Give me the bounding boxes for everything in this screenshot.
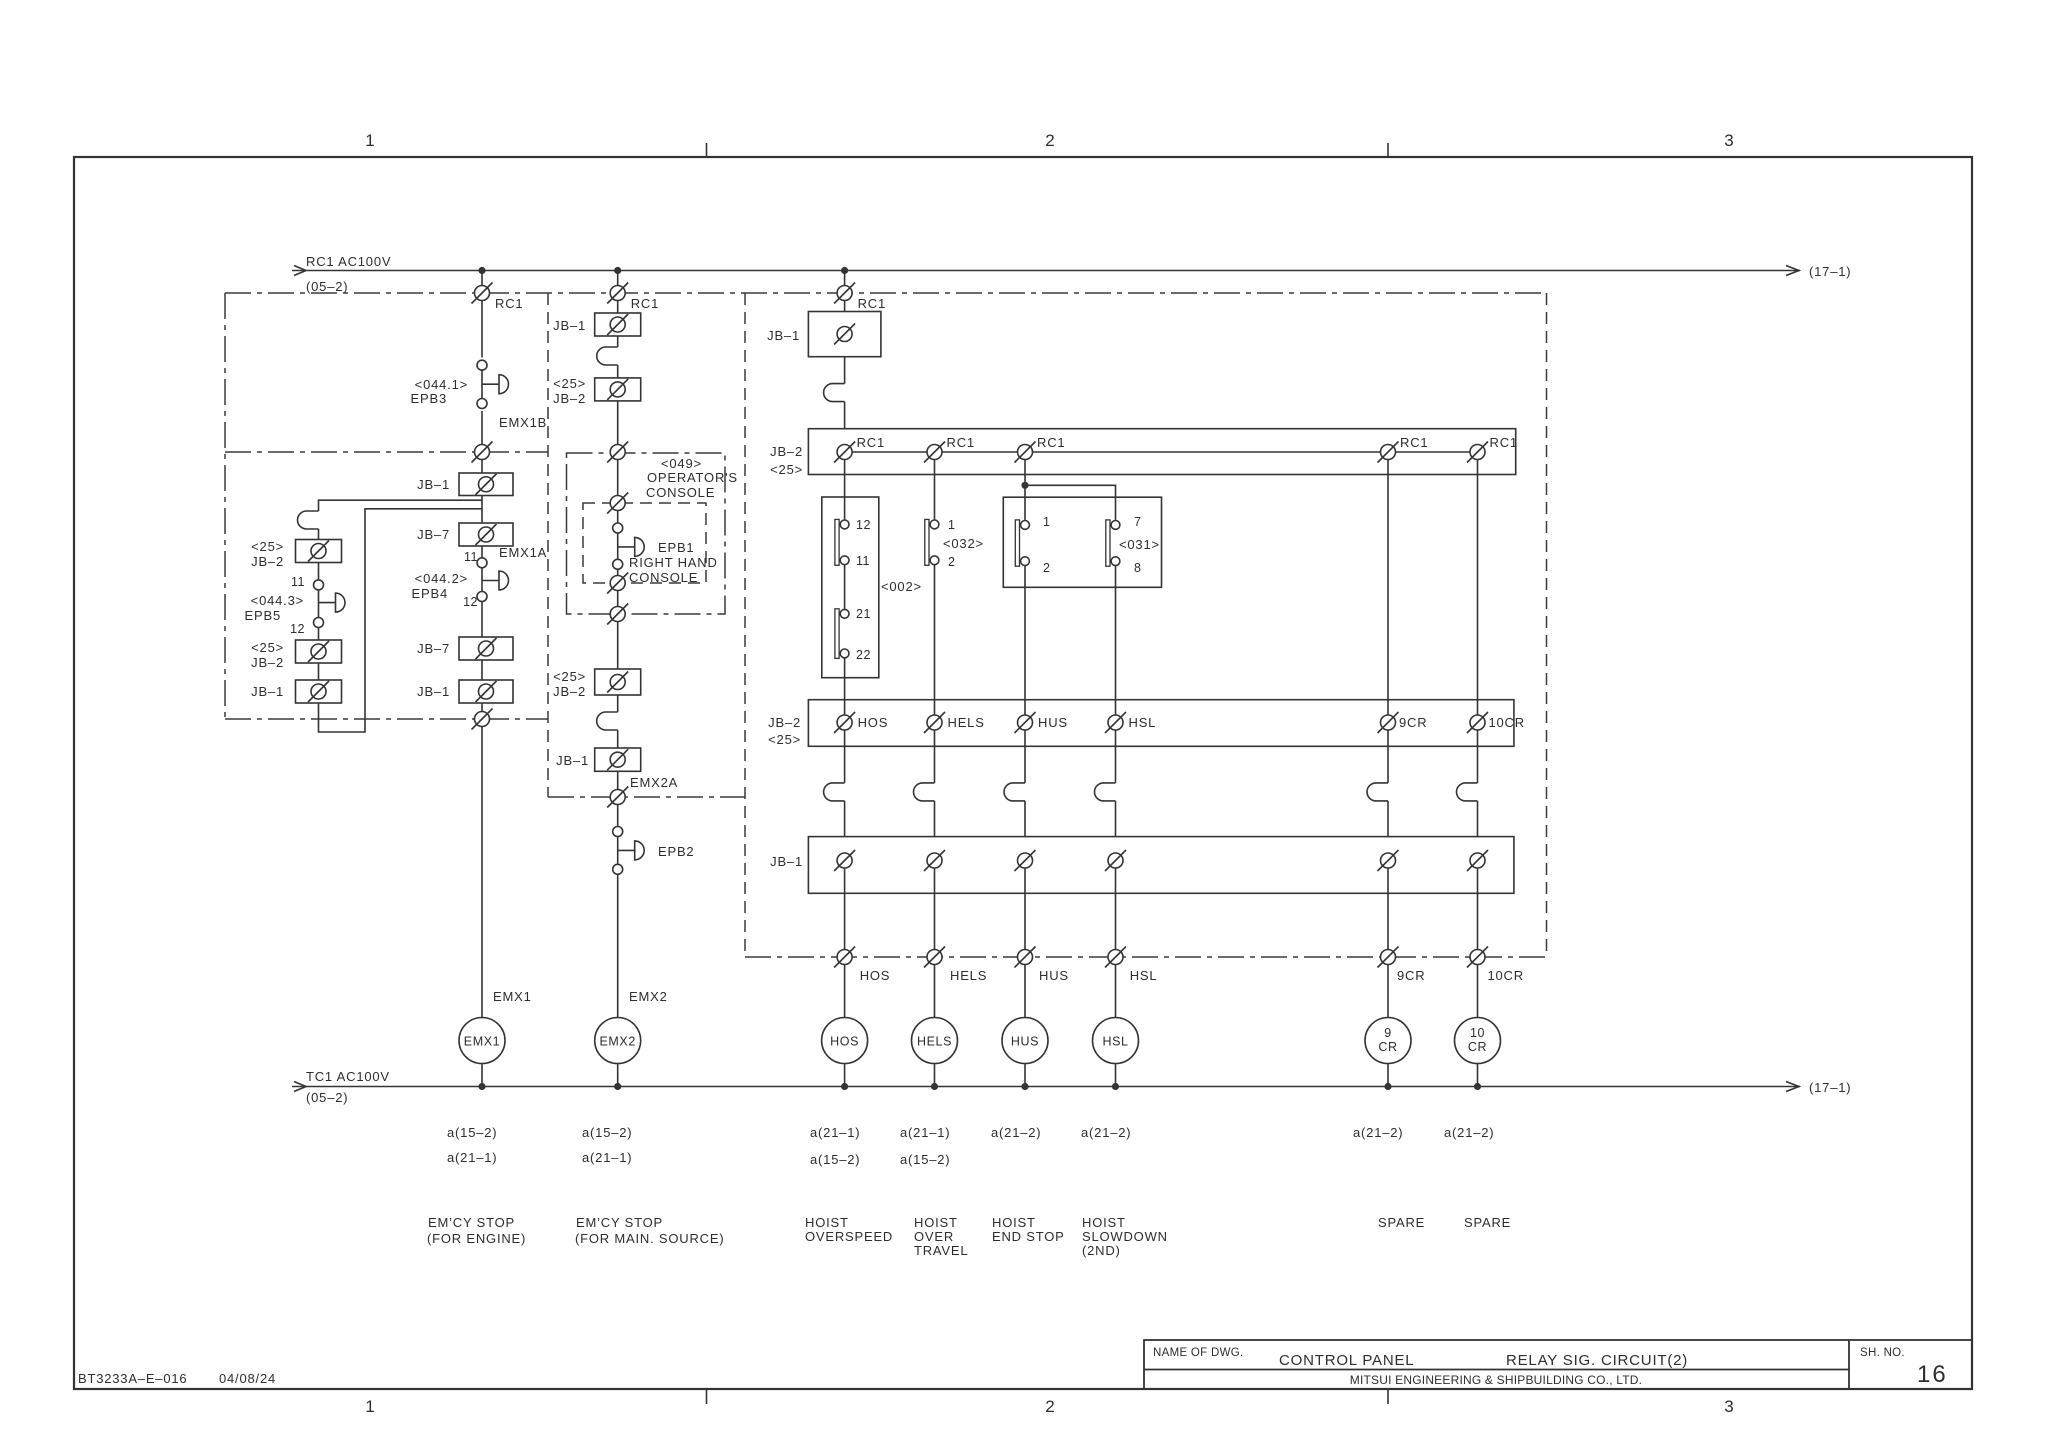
svg-text:HSL: HSL [1102,1035,1128,1049]
junction TC1 bus / EMX1 column [478,1083,485,1090]
terminal RC1 (HELS) in JB-2 row [924,442,945,463]
terminal HELS on panel boundary [924,947,945,968]
junction TC1 bus / HUS column [1021,1083,1028,1090]
svg-text:OVERSPEED: OVERSPEED [805,1229,893,1244]
svg-text:a(21–1): a(21–1) [447,1150,497,1165]
svg-text:EMX2: EMX2 [599,1035,635,1049]
svg-text:HOS: HOS [830,1035,859,1049]
svg-text:a(15–2): a(15–2) [582,1125,632,1140]
svg-text:RC1: RC1 [495,296,523,311]
right hand console inner box (dashed) [583,503,706,583]
bus RC1 AC100V top supply rail [292,266,1800,276]
junction box JB-1 terminal (EMX1) [459,473,513,496]
junction TC1 bus / 9CR column [1384,1083,1391,1090]
svg-text:a(15–2): a(15–2) [447,1125,497,1140]
wire EMX2 column segments [617,271,619,1087]
svg-text:10CR: 10CR [1489,715,1525,730]
svg-text:JB–2: JB–2 [553,391,586,406]
junction box JB-2 <25> terminal (EMX2 top) [595,378,641,401]
label drawing number and date [78,1371,276,1386]
svg-text:RC1: RC1 [857,435,885,450]
wire HELS column segments [934,460,936,1087]
operator console box <049> (dash-dot) [567,453,726,614]
panel boundary divider EMX1B/EMX1A (dash-dot) [225,451,548,453]
cable loop HOS [824,783,845,801]
terminal EMX2A on panel boundary [607,787,628,808]
bus TC1 AC100V bottom return rail [292,1082,1800,1092]
terminal HOS in JB-1 row [834,850,855,871]
terminal HUS in lower JB-2 row [1015,712,1036,733]
svg-text:EMX1: EMX1 [464,1035,500,1049]
svg-text:1: 1 [365,131,374,150]
svg-text:8: 8 [1134,561,1141,575]
svg-text:JB–2: JB–2 [770,444,803,459]
svg-text:EPB4: EPB4 [412,586,448,601]
terminal RC1 on HOS column [834,283,855,304]
svg-text:CR: CR [1468,1040,1487,1054]
junction box JB-1 terminal (EMX2 lower) [595,748,641,771]
svg-text:JB–1: JB–1 [251,684,284,699]
junction TC1 bus / 10CR column [1474,1083,1481,1090]
terminal HUS on panel boundary [1015,947,1036,968]
svg-text:HUS: HUS [1038,715,1068,730]
junction box JB-7 terminal (EMX1 upper) [459,523,513,546]
relay coil HSL [1093,1018,1139,1064]
label HOIST END STOP [992,1215,1065,1244]
relay coil HUS [1002,1018,1048,1064]
svg-text:EMX1: EMX1 [493,989,532,1004]
svg-text:EMX1B: EMX1B [499,415,547,430]
svg-text:a(21–1): a(21–1) [582,1150,632,1165]
svg-text:(17–1): (17–1) [1809,264,1851,279]
svg-text:a(21–2): a(21–2) [1444,1125,1494,1140]
svg-text:a(21–1): a(21–1) [810,1125,860,1140]
relay coil 10CR [1455,1018,1501,1064]
wire HOS column segments [844,271,846,1087]
svg-text:TRAVEL: TRAVEL [914,1243,968,1258]
cable loop HSL [1095,783,1116,801]
title block [1144,1340,1972,1389]
svg-text:JB–1: JB–1 [770,854,803,869]
terminal EMX2 on inner console box bottom [607,573,628,594]
svg-text:(FOR MAIN. SOURCE): (FOR MAIN. SOURCE) [575,1231,724,1246]
panel boundary left box EMX1 (dash-dot) [225,293,548,719]
svg-text:<25>: <25> [768,732,801,747]
contact bar <031> 7-8 [1106,520,1110,566]
junction box JB-2 <25> row (lower long box) [808,700,1514,747]
svg-text:HOIST: HOIST [992,1215,1036,1230]
svg-text:3: 3 [1724,1397,1733,1416]
pin 2 [930,556,939,565]
svg-text:2: 2 [1043,561,1050,575]
svg-text:EPB1: EPB1 [658,540,694,555]
junction TC1 bus / EMX2 column [614,1083,621,1090]
label HOIST OVER TRAVEL [914,1215,968,1258]
cable loop EPB5 branch [298,511,319,529]
svg-text:SPARE: SPARE [1378,1215,1425,1230]
svg-text:JB–1: JB–1 [553,318,586,333]
svg-text:<25>: <25> [251,539,284,554]
svg-text:END STOP: END STOP [992,1229,1065,1244]
label HOIST OVERSPEED [805,1215,893,1244]
svg-text:RC1: RC1 [1037,435,1065,450]
svg-text:(05–2): (05–2) [306,1090,348,1105]
label EM’CY STOP (FOR MAIN. SOURCE) [575,1215,724,1246]
limit switch box <002> hoist overspeed [822,497,879,678]
svg-text:JB–1: JB–1 [767,328,800,343]
svg-text:CONSOLE: CONSOLE [629,570,698,585]
relay coil EMX1 [459,1018,505,1064]
terminal 10CR on panel boundary [1467,947,1488,968]
svg-text:2: 2 [948,555,955,569]
push button EPB5 <044.3> [314,580,346,628]
svg-text:EM’CY STOP: EM’CY STOP [428,1215,515,1230]
terminal HELS in lower JB-2 row [924,712,945,733]
svg-text:(05–2): (05–2) [306,279,348,294]
svg-text:JB–2: JB–2 [768,715,801,730]
svg-text:a(21–2): a(21–2) [991,1125,1041,1140]
svg-text:<25>: <25> [553,669,586,684]
svg-text:11: 11 [464,550,478,564]
pin 21 [840,609,849,618]
wire EMX1 column segments [481,271,483,1087]
svg-text:HOIST: HOIST [1082,1215,1126,1230]
terminal EMX2 on inner console box top [607,493,628,514]
svg-text:12: 12 [290,622,305,636]
cable loop HELS [914,783,935,801]
svg-text:2: 2 [1045,1397,1054,1416]
svg-text:RC1 AC100V: RC1 AC100V [306,254,391,269]
svg-text:<032>: <032> [943,536,984,551]
svg-text:SLOWDOWN: SLOWDOWN [1082,1229,1168,1244]
svg-text:RC1: RC1 [947,435,975,450]
wire EPB5 parallel branch [319,500,483,732]
wire HUS column segments [1024,460,1026,1087]
junction RC1 bus / EMX1 column [478,267,485,274]
svg-text:EMX1A: EMX1A [499,545,547,560]
svg-text:OVER: OVER [914,1229,954,1244]
svg-text:(17–1): (17–1) [1809,1080,1851,1095]
svg-text:HELS: HELS [950,968,987,983]
pin 11 [840,556,849,565]
svg-text:HOIST: HOIST [805,1215,849,1230]
svg-text:RC1: RC1 [631,296,659,311]
terminal EMX1 on divider line [472,442,493,463]
svg-text:RC1: RC1 [858,296,886,311]
terminal 9CR in JB-1 row [1378,850,1399,871]
junction box JB-2 <25> terminal (EPB5 branch upper) [296,540,342,563]
svg-text:HELS: HELS [917,1035,952,1049]
junction RC1 bus / HOS column [841,267,848,274]
svg-text:CR: CR [1378,1040,1397,1054]
svg-text:RC1: RC1 [1400,435,1428,450]
svg-text:21: 21 [856,607,871,621]
svg-text:HELS: HELS [948,715,985,730]
svg-text:<25>: <25> [251,640,284,655]
svg-text:04/08/24: 04/08/24 [219,1371,276,1386]
cable loop 9CR [1367,783,1388,801]
junction box JB-2 <25> row (upper long box) [808,429,1515,475]
junction box JB-1 row (long box) [808,837,1514,894]
contact bar <002> 21-22 [835,609,839,659]
terminal EMX1 on panel boundary [472,709,493,730]
svg-text:JB–1: JB–1 [417,477,450,492]
svg-text:7: 7 [1134,515,1141,529]
svg-text:CONTROL PANEL: CONTROL PANEL [1279,1352,1414,1369]
cable loop EMX2 lower [597,712,618,730]
relay coil EMX2 [595,1018,641,1064]
junction box JB-2 <25> terminal (EPB5 branch lower) [296,640,342,663]
pin 8 [1111,557,1120,566]
value labels wire references [447,1125,1494,1167]
svg-text:TC1 AC100V: TC1 AC100V [306,1069,390,1084]
junction TC1 bus / HSL column [1112,1083,1119,1090]
panel boundary right box (dashed verticals, dash-dot bottom) [745,293,1547,957]
terminal HOS on panel boundary [834,947,855,968]
svg-text:HOS: HOS [858,715,889,730]
pin 7 [1111,521,1120,530]
svg-text:1: 1 [948,518,955,532]
junction TC1 bus / HELS column [931,1083,938,1090]
svg-text:HOIST: HOIST [914,1215,958,1230]
terminal EMX2 on console box edge [607,442,628,463]
wire 9CR column segments [1387,460,1389,1087]
svg-text:22: 22 [856,648,871,662]
svg-text:MITSUI ENGINEERING & SHIPBUILD: MITSUI ENGINEERING & SHIPBUILDING CO., L… [1350,1373,1642,1387]
svg-text:HSL: HSL [1130,968,1158,983]
svg-text:3: 3 [1724,131,1733,150]
svg-text:JB–1: JB–1 [556,753,589,768]
terminal HELS in JB-1 row [924,850,945,871]
svg-text:(2ND): (2ND) [1082,1243,1121,1258]
terminal 9CR on panel boundary [1378,947,1399,968]
terminal RC1 (HUS) in JB-2 row [1015,442,1036,463]
svg-text:1: 1 [1043,515,1050,529]
terminal RC1 (9CR) in JB-2 row [1378,442,1399,463]
svg-text:a(15–2): a(15–2) [810,1152,860,1167]
cable loop EMX2 upper [597,347,618,365]
junction HUS/HSL feed [1021,482,1028,489]
svg-text:16: 16 [1917,1361,1948,1388]
junction RC1 bus / EMX2 column [614,267,621,274]
svg-text:JB–1: JB–1 [417,684,450,699]
terminal HSL on panel boundary [1105,947,1126,968]
svg-text:11: 11 [856,554,870,568]
svg-text:JB–7: JB–7 [417,641,450,656]
svg-text:<044.1>: <044.1> [415,377,468,392]
svg-text:10CR: 10CR [1488,968,1524,983]
relay coil HOS [822,1018,868,1064]
svg-text:RC1: RC1 [1490,435,1518,450]
svg-text:9CR: 9CR [1397,968,1425,983]
panel boundary top edge (dash-dot) [225,292,1547,294]
svg-text:JB–2: JB–2 [251,554,284,569]
cable loop HOS [824,384,845,402]
junction box JB-7 terminal (EMX1 lower) [459,637,513,660]
junction box JB-1 (HOS, large box) [808,312,881,357]
svg-text:HSL: HSL [1129,715,1157,730]
terminal 9CR in lower JB-2 row [1378,712,1399,733]
svg-text:HUS: HUS [1011,1035,1039,1049]
terminal RC1 (10CR) in JB-2 row [1467,442,1488,463]
relay coil HELS [912,1018,958,1064]
svg-text:EPB5: EPB5 [245,608,281,623]
pin 1 [930,520,939,529]
terminal 10CR in lower JB-2 row [1467,712,1488,733]
push button EPB1 [613,523,645,569]
label EM’CY STOP (FOR ENGINE) [427,1215,526,1246]
svg-text:12: 12 [463,595,478,609]
contact bar <032> [925,519,929,565]
terminal HSL in lower JB-2 row [1105,712,1126,733]
junction box JB-1 terminal (EMX2 top) [595,313,641,336]
svg-text:<25>: <25> [770,462,803,477]
svg-text:HUS: HUS [1039,968,1069,983]
svg-text:NAME OF DWG.: NAME OF DWG. [1153,1347,1243,1359]
push button EPB4 <044.2> [477,558,509,602]
label HOIST SLOWDOWN (2ND) [1082,1215,1168,1258]
terminal EMX2 on console box bottom [607,604,628,625]
wire HSL column segments [1115,566,1117,1087]
svg-text:HOS: HOS [860,968,891,983]
terminal RC1 (HOS) in JB-2 row [834,442,855,463]
junction box JB-2 <25> terminal (EMX2 lower) [595,669,641,695]
terminal HUS in JB-1 row [1015,850,1036,871]
svg-text:12: 12 [856,518,871,532]
svg-text:a(21–2): a(21–2) [1353,1125,1403,1140]
junction box JB-1 terminal (EMX1 lower) [459,680,513,703]
pin 12 [840,520,849,529]
svg-text:9CR: 9CR [1399,715,1427,730]
junction box JB-1 terminal (EPB5 branch) [296,680,342,703]
terminal 10CR in JB-1 row [1467,850,1488,871]
pin 22 [840,649,849,658]
svg-text:SPARE: SPARE [1464,1215,1511,1230]
svg-text:<049>: <049> [661,456,702,471]
cable loop 10CR [1457,783,1478,801]
svg-text:<044.2>: <044.2> [415,571,468,586]
svg-text:a(21–1): a(21–1) [900,1125,950,1140]
terminal RC1 on EMX2 column [607,283,628,304]
svg-text:<25>: <25> [553,376,586,391]
svg-text:OPERATOR'S: OPERATOR'S [647,470,738,485]
push button EPB3 <044.1> [477,360,509,408]
limit switch box <031> hoist end stop / slowdown [1003,497,1161,587]
svg-text:<002>: <002> [881,579,922,594]
svg-text:1: 1 [365,1397,374,1416]
svg-text:EM’CY STOP: EM’CY STOP [576,1215,663,1230]
svg-text:SH. NO.: SH. NO. [1860,1347,1905,1359]
push button EPB2 [613,827,645,875]
svg-text:2: 2 [1045,131,1054,150]
svg-text:CONSOLE: CONSOLE [646,485,715,500]
svg-text:JB–2: JB–2 [251,655,284,670]
terminal HSL in JB-1 row [1105,850,1126,871]
svg-text:a(15–2): a(15–2) [900,1152,950,1167]
contact bar <031> 1-2 [1015,520,1019,566]
svg-text:EPB3: EPB3 [411,391,447,406]
terminal HOS in lower JB-2 row [834,712,855,733]
svg-text:RIGHT HAND: RIGHT HAND [629,555,718,570]
svg-text:EMX2: EMX2 [629,989,668,1004]
relay coil 9CR [1365,1018,1411,1064]
pin 2 [1021,557,1030,566]
svg-text:<044.3>: <044.3> [251,593,304,608]
svg-text:BT3233A–E–016: BT3233A–E–016 [78,1371,187,1386]
panel boundary EMX2 box (dashed verticals) [548,293,745,797]
svg-text:a(21–2): a(21–2) [1081,1125,1131,1140]
svg-text:10: 10 [1470,1026,1485,1040]
wire 10CR column segments [1477,460,1479,1087]
wire RC1 distribution inside JB-2 box [845,451,1478,453]
pin 1 [1021,521,1030,530]
cable loop HUS [1004,783,1025,801]
svg-text:JB–7: JB–7 [417,527,450,542]
wire HSL feed from HUS [1025,485,1116,520]
terminal RC1 on EMX1 column [472,283,493,304]
svg-text:JB–2: JB–2 [553,684,586,699]
svg-text:RELAY SIG. CIRCUIT(2): RELAY SIG. CIRCUIT(2) [1506,1352,1688,1369]
contact bar <002> 12-11 [835,519,839,565]
junction TC1 bus / HOS column [841,1083,848,1090]
svg-text:EPB2: EPB2 [658,844,694,859]
svg-text:11: 11 [291,575,305,589]
svg-text:9: 9 [1384,1026,1392,1040]
svg-text:EMX2A: EMX2A [630,775,678,790]
svg-text:(FOR ENGINE): (FOR ENGINE) [427,1231,526,1246]
svg-text:<031>: <031> [1119,537,1160,552]
